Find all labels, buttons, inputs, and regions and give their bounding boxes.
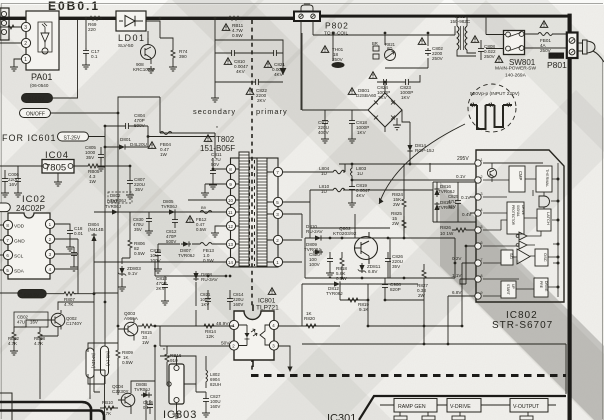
svg-text:TVR06J: TVR06J [178,253,195,258]
wire lower primary mesh [302,284,424,344]
resistor RB11 [227,16,241,20]
resistor R809 [117,345,119,366]
waveform note [379,84,520,204]
node ON/OFF [20,97,161,118]
resistor R824 [403,164,405,216]
IC802 START UP block [501,281,516,298]
svg-text:D2SBA60: D2SBA60 [356,93,377,98]
inductor FB9 [200,211,212,214]
svg-text:(M9.1V): (M9.1V) [106,351,111,366]
IC802 pin 1 [475,160,481,166]
ground row Q802 cell [326,270,334,277]
svg-text:DRIVE: DRIVE [521,205,525,215]
svg-text:1KV: 1KV [201,302,209,307]
capacitor C824 [377,81,399,83]
capacitor C18 [55,224,78,269]
capacitor C006 [5,170,18,190]
svg-text:500V: 500V [166,239,176,244]
IC802 STR-S6707 outline [476,150,564,331]
IC802 pin 7 [475,260,481,266]
svg-text:*: * [216,126,218,132]
svg-text:4.7K: 4.7K [8,341,17,346]
IC802 PRE DRIVE block [534,278,548,297]
inductor FB13 [192,243,223,246]
pin 9 [226,179,235,188]
svg-text:2KV: 2KV [257,98,267,103]
svg-text:1.1V: 1.1V [452,273,462,278]
wire cap filter loop top [215,20,283,95]
pin 14 [226,257,235,266]
svg-text:T802: T802 [216,135,235,144]
transformer T802 core dashes [250,160,255,266]
svg-text:16V: 16V [9,182,18,187]
svg-text:4KV: 4KV [356,193,366,198]
svg-text:0.1V: 0.1V [456,174,466,179]
wire 7805 input [0,166,42,170]
svg-text:LATCH: LATCH [546,212,551,225]
svg-text:THERMAL: THERMAL [545,169,549,187]
resistor RB10 [100,407,118,409]
optocoupler IC801 [229,288,279,367]
regulator IC803 [163,356,197,420]
wire vertical bus x94 [93,243,95,392]
diode D807 [181,241,191,246]
svg-text:KT0203/92: KT0203/92 [333,231,357,237]
wire bottom-left corner [0,393,12,420]
pin 12 [226,221,235,230]
svg-text:S14.5V: S14.5V [28,97,45,103]
svg-text:3: 3 [276,212,279,217]
thermistor TH01 [321,46,329,53]
IC802 pin 3 [475,194,481,200]
diode D802b [110,209,120,214]
diode D805 [167,209,177,214]
bridge rectifier DB01 [302,33,410,132]
heavy right border bar [568,14,572,420]
IC802 AND gate [539,196,550,207]
wire primary hot rail [302,190,433,262]
svg-text:OSC: OSC [543,253,548,262]
capacitor C805 [100,147,102,164]
capacitor C830b [148,212,150,228]
svg-text:100V: 100V [150,258,162,263]
svg-text:100V: 100V [309,262,321,267]
wire vertical bus x118 [117,113,119,345]
zener ZD803 [122,258,130,284]
svg-text:35V: 35V [134,227,142,232]
resistor R807 [47,293,95,295]
svg-text:820P: 820P [390,287,401,292]
pin 7 [273,167,282,176]
svg-text:1W: 1W [89,179,97,184]
svg-text:SDA: SDA [14,269,25,275]
svg-text:12K: 12K [206,334,215,339]
ground filter loop [211,95,219,102]
svg-text:V-DRIVE: V-DRIVE [450,404,471,410]
capacitor C825 [457,192,459,212]
connector P802 [294,3,349,37]
svg-text:1W: 1W [142,340,150,345]
svg-text:R820: R820 [304,316,315,321]
wire bus x130 [129,212,131,230]
resistor R825 [403,216,405,238]
IC802 pin 5 [475,227,481,233]
svg-text:1K: 1K [306,311,313,316]
svg-text:PA01: PA01 [31,72,52,82]
svg-text:500V: 500V [134,123,146,128]
svg-text:7: 7 [481,258,483,262]
svg-text:250V: 250V [484,54,496,59]
svg-text:5: 5 [481,225,483,229]
resistor RB08 [39,327,41,352]
svg-text:1U: 1U [321,171,327,176]
svg-text:RAMP GEN: RAMP GEN [398,404,426,410]
IC802 THERMAL block [536,166,552,192]
node edge oval mid [0,203,10,212]
node S16.5V [18,290,46,299]
capacitor C804 [105,125,148,127]
svg-text:160V: 160V [233,302,243,307]
svg-text:ON/OFF: ON/OFF [26,112,45,118]
eeprom IC02 [3,194,54,279]
pin 3 [273,209,282,218]
diode D809 [313,249,323,254]
wire LD01 to Q908 [146,21,173,45]
IC802 PROTECTOR block [507,202,525,234]
diode D810 [313,235,323,240]
svg-text:S/D: S/D [509,253,513,259]
svg-text:9: 9 [481,291,483,295]
svg-text:35V: 35V [135,187,144,192]
svg-text:RGP-15J: RGP-15J [415,148,434,153]
pin 11 [226,207,235,216]
svg-text:(N414B: (N414B [88,227,104,232]
capacitor C826 [387,252,389,278]
heavy AC bus bar left [0,17,294,20]
capacitor C827 [196,392,206,410]
svg-text:1W: 1W [160,152,168,157]
IC802 LATCH block [537,209,551,231]
pin 10 [226,195,235,204]
photocoupler PA01 [21,11,59,88]
IC802 CMP block [509,166,525,192]
wire Q802 cell box [305,202,455,278]
svg-text:160V: 160V [210,404,220,409]
svg-text:10 1W: 10 1W [440,231,454,236]
transistor Q003 [118,311,139,341]
capacitor C908 [384,278,386,300]
inductor L804 [330,170,345,174]
wire PA01 pin3 to edge [0,25,21,29]
diode D801 [105,136,148,147]
IC802 OSC block [535,249,548,266]
svg-text:DRIVE: DRIVE [544,281,548,292]
svg-text:9: 9 [229,182,232,187]
resistor R69 [88,16,102,20]
pin 8 [226,164,235,173]
capacitor C820 [329,252,331,270]
svg-text:4.7K: 4.7K [102,411,111,416]
svg-text:START: START [506,284,510,295]
edge connector top-left [0,8,9,40]
line filter TB01 [450,14,476,56]
svg-text:47U: 47U [17,320,25,325]
svg-text:0.01: 0.01 [74,231,83,236]
svg-text:1KV: 1KV [401,95,411,100]
svg-text:0.5W: 0.5W [196,227,207,232]
svg-text:150-982C: 150-982C [450,19,471,24]
inductor L803 [351,164,475,180]
IC802 buffers [519,232,527,249]
svg-text:140-269A: 140-269A [505,73,527,79]
svg-text:B9: B9 [201,205,207,210]
svg-text:AC-IN: AC-IN [550,54,563,59]
switch SW801 [486,15,567,79]
svg-text:IC801: IC801 [258,298,276,305]
wire IC801 pin4 out [278,325,302,327]
svg-text:14: 14 [228,260,233,265]
pin 1 [273,257,282,266]
svg-text:2: 2 [276,238,279,243]
svg-text:P802: P802 [325,21,349,31]
diode D808 [193,271,198,281]
svg-text:GND: GND [14,239,25,245]
svg-text:(06-0540: (06-0540 [30,83,49,88]
IC802 pin 9 [475,293,481,299]
wire bottom stubs [14,269,155,420]
capacitor C807 [129,176,131,192]
svg-text:A966A: A966A [124,316,139,321]
svg-text:35V: 35V [448,204,456,209]
capacitor C17 [85,20,87,62]
IC802 pin 6 [475,243,481,249]
svg-text:0.5W: 0.5W [122,360,133,365]
svg-text:35V: 35V [392,264,401,269]
svg-text:6.8V: 6.8V [452,290,462,295]
svg-text:220: 220 [88,27,96,32]
svg-text:MAIN-POWER-SW: MAIN-POWER-SW [495,66,537,72]
svg-text:RU-3AV: RU-3AV [201,277,218,282]
pin 2 [273,235,282,244]
svg-text:82UH: 82UH [210,382,221,387]
svg-text:5: 5 [276,200,279,205]
svg-text:STR-S6707: STR-S6707 [492,320,553,331]
bottom IC301 block [0,396,566,420]
svg-text:250V: 250V [432,56,444,61]
svg-text:8: 8 [229,167,232,172]
svg-text:SIGNAL: SIGNAL [516,205,520,217]
IC802 pin 8 [475,276,481,282]
svg-text:7805: 7805 [45,163,66,174]
svg-text:1: 1 [481,158,483,162]
IC802 pin 4 [475,210,481,216]
svg-text:1: 1 [24,57,27,63]
svg-text:400V: 400V [318,130,330,135]
wire 344 rail right [424,344,566,394]
node ST-25V / FOR IC601 [2,126,215,147]
svg-text:VDD: VDD [14,224,25,230]
IC802 node dots [557,178,560,289]
svg-text:390: 390 [179,54,187,59]
svg-text:IC803: IC803 [163,409,197,420]
capacitor C811 [210,168,216,176]
wire vertical bus x105 [104,147,106,370]
IC802 comparator [517,249,530,264]
svg-text:2: 2 [24,41,27,47]
svg-text:ST-25V: ST-25V [64,136,81,142]
svg-text:3: 3 [481,192,483,196]
resistor R819 [340,299,368,301]
zener ZD811 [358,263,366,273]
resistor R805 [74,166,130,176]
svg-text:SCL: SCL [14,254,24,260]
capacitor C815 [158,244,180,266]
svg-text:P801: P801 [547,60,567,70]
svg-text:*: * [163,348,165,354]
capacitor C819 [351,180,353,200]
ground Q908 [147,66,155,73]
svg-text:SLV-50: SLV-50 [118,43,134,49]
IC802 internal transistor [487,168,496,177]
IC802 pin 2 [475,177,481,183]
svg-text:0.1V: 0.1V [461,195,471,200]
resistor RB02 [13,327,15,348]
diode D814 [407,143,412,153]
svg-text:1: 1 [276,260,279,265]
svg-text:10: 10 [228,198,233,203]
svg-text:TVR06J: TVR06J [105,204,121,209]
svg-text:primary: primary [256,107,288,116]
capacitor C823 [399,75,420,82]
node S14.5V [22,20,78,103]
svg-text:UP: UP [511,284,515,289]
svg-text:PRE: PRE [539,281,543,289]
svg-text:6D: 6D [387,46,392,51]
resistor R815 [138,325,234,327]
resistor R818 [341,252,343,278]
mains plug [578,40,604,62]
svg-text:2W: 2W [392,221,400,226]
inductor FB12 [186,216,194,223]
capacitor C814 [229,290,231,310]
svg-text:(M-12V): (M-12V) [91,353,96,369]
svg-text:50V: 50V [211,162,220,167]
ground pin9 [204,184,206,190]
degauss posistor R821 [372,41,396,61]
svg-text:BR: BR [372,41,378,46]
capacitor C821 [271,50,279,56]
box pin feed cell [433,182,476,222]
transformer T802 label [200,126,235,153]
heavy AC bus bar right [320,15,569,18]
diode D816 [434,187,439,197]
svg-text:0.1: 0.1 [91,54,98,59]
wire AC distribution row [301,21,455,110]
svg-text:12: 12 [228,224,233,229]
diode D802 label [108,192,132,203]
svg-text:2W: 2W [418,293,426,298]
svg-text:1U: 1U [357,171,363,176]
svg-text:RB10: RB10 [102,400,114,405]
svg-text:IC301: IC301 [327,413,356,420]
capacitor C19 [73,247,75,264]
wire IC802 pin feeds [424,163,475,344]
transformer T802 frame [231,158,279,267]
svg-text:8: 8 [481,274,483,278]
diode D812 [332,281,342,286]
capacitor C813 [155,276,226,298]
svg-text:CMP: CMP [518,171,523,181]
inductor L802 [206,356,221,388]
svg-text:TVR06J: TVR06J [134,387,150,392]
resistor R806 [129,230,131,258]
svg-text:0.5W: 0.5W [203,258,214,263]
capacitor C821s [207,290,209,310]
capacitor C822 [253,79,261,85]
svg-text:3: 3 [24,25,27,31]
svg-text:RU-2AV: RU-2AV [306,229,323,234]
svg-text:35V: 35V [86,155,95,160]
resistor R820 [302,325,318,327]
svg-text:2KV: 2KV [156,286,166,291]
inductor FB04 [148,97,215,158]
svg-text:2W: 2W [393,202,401,207]
svg-text:TVR06J: TVR06J [161,204,177,209]
ground PA01 pin1 [14,59,21,64]
resistor R826 [452,229,475,231]
svg-text:4.7K: 4.7K [64,302,74,307]
capacitor C817 [325,110,340,136]
svg-text:11: 11 [228,210,233,215]
svg-text:PROTECTOR: PROTECTOR [511,205,515,226]
transistor Q802 [333,226,378,264]
svg-text:D4L20U: D4L20U [130,142,147,147]
capacitor C810 [229,50,237,56]
primary/secondary dashed line [251,20,253,372]
svg-text:6.8V: 6.8V [368,269,378,274]
capacitor C818 [340,110,352,136]
IC802 internal wires [483,163,558,297]
connector P801 [547,33,578,71]
pin 13 [226,239,235,248]
svg-text:0.2V: 0.2V [452,256,462,261]
svg-text:9.1V: 9.1V [128,271,138,276]
svg-text:6: 6 [481,241,483,245]
svg-text:0.5W: 0.5W [232,33,243,38]
svg-text:4: 4 [481,208,483,212]
wire IC02 pins left [0,225,3,270]
svg-text:R826: R826 [440,225,451,230]
svg-text:250V: 250V [540,48,552,53]
svg-text:24C02P: 24C02P [16,204,45,213]
wire IC801 pin3 out [278,346,290,367]
svg-text:V-OUTPUT: V-OUTPUT [513,404,540,410]
transistor Q908 [133,31,156,72]
svg-text:295V: 295V [457,156,469,162]
svg-text:TO D-COIL: TO D-COIL [324,31,348,37]
resistor R74 [172,45,174,64]
capacitor C812 [174,212,176,228]
wire PA01 pin2 to edge [0,42,21,44]
svg-text:7: 7 [276,170,279,175]
capacitor C816 [149,400,151,414]
svg-text:13: 13 [228,242,233,247]
node 295V rail [339,122,475,172]
svg-text:S16.5V: S16.5V [24,292,41,298]
wire bottom-left mesh [0,293,196,414]
svg-text:FOR IC601: FOR IC601 [2,133,57,143]
svg-text:LD01: LD01 [118,33,146,43]
